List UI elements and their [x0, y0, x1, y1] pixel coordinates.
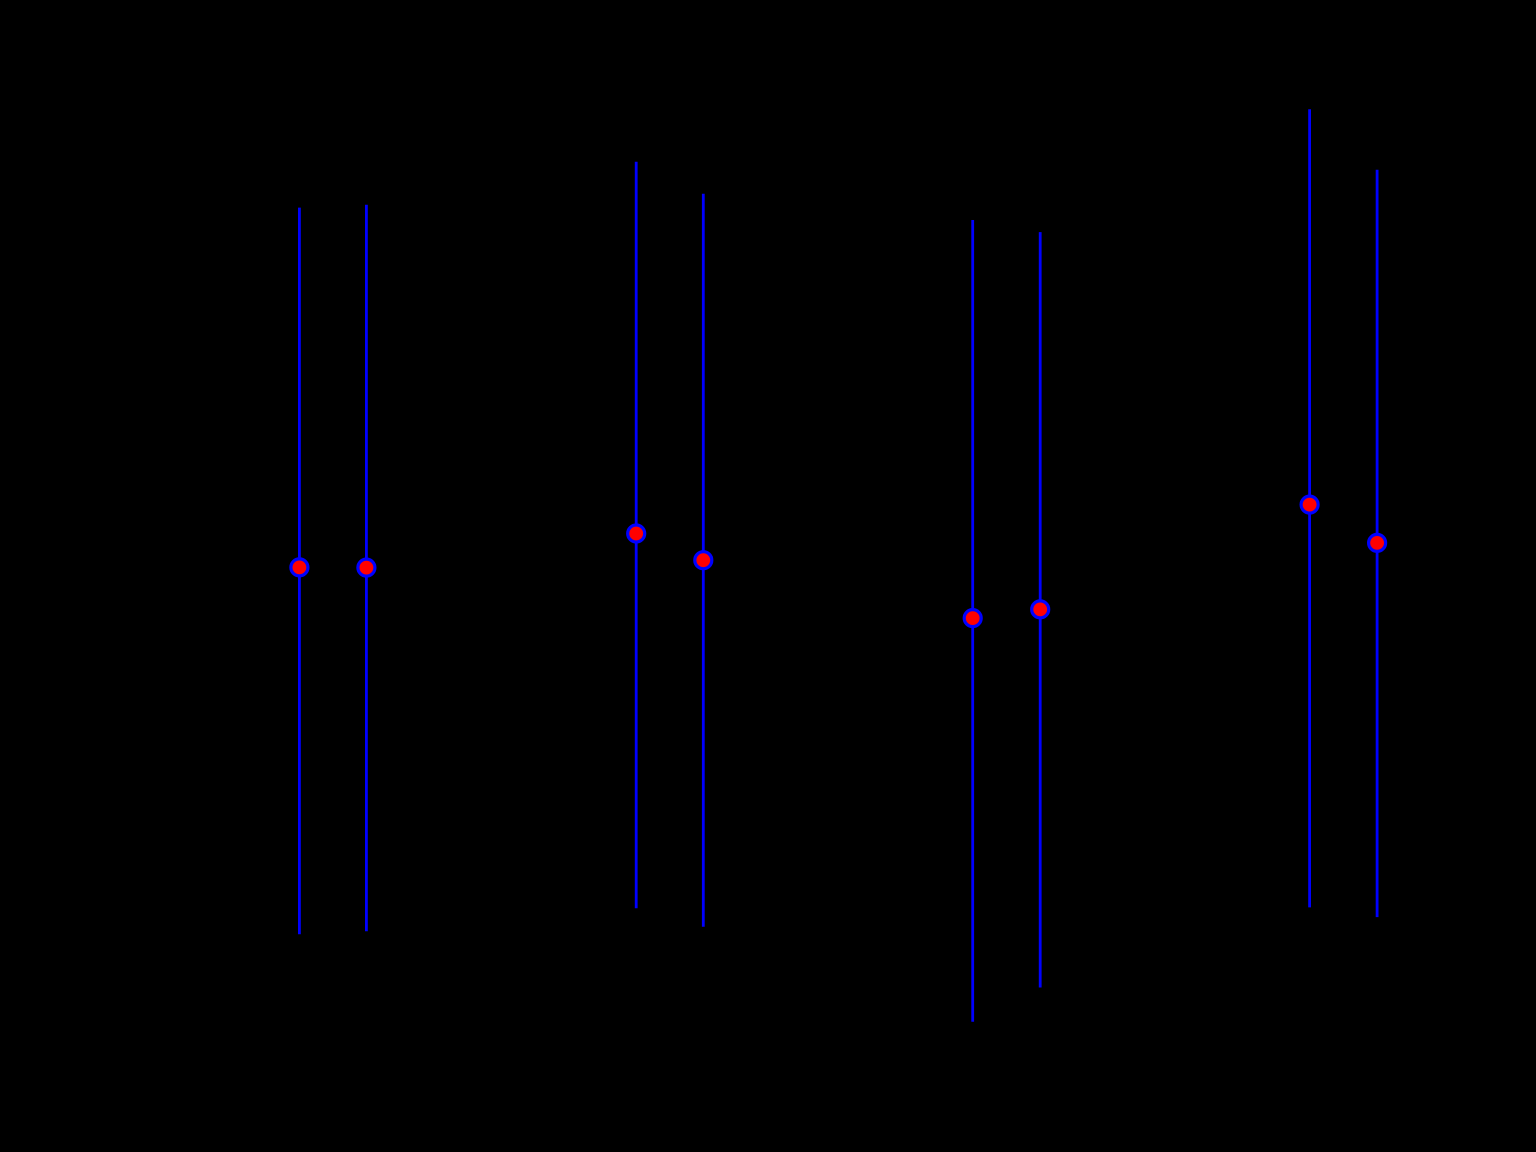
error bar group2 series1 [628, 162, 645, 909]
node A: data point group1 series1 [291, 559, 308, 576]
error bar group1 series1 [291, 208, 308, 935]
wire [971, 220, 974, 1022]
error bar group4 series2 [1369, 170, 1386, 917]
node H: data point group4 series2 [1369, 534, 1386, 551]
node G: data point group4 series1 [1301, 496, 1318, 513]
wire [635, 162, 638, 909]
error bar group1 series2 [358, 205, 375, 932]
error bar group3 series1 [964, 220, 981, 1022]
wire [298, 208, 301, 935]
error bar group4 series1 [1301, 109, 1318, 907]
node E: data point group3 series1 [964, 610, 981, 627]
node B: data point group1 series2 [358, 559, 375, 576]
wire [1039, 232, 1042, 987]
wire [365, 205, 368, 932]
wire [1376, 170, 1379, 917]
wire [1308, 109, 1311, 907]
node D: data point group2 series2 [695, 552, 712, 569]
node F: data point group3 series2 [1032, 601, 1049, 618]
error bar group3 series2 [1032, 232, 1049, 987]
error bar group2 series2 [695, 194, 712, 927]
wire [702, 194, 705, 927]
node C: data point group2 series1 [628, 525, 645, 542]
